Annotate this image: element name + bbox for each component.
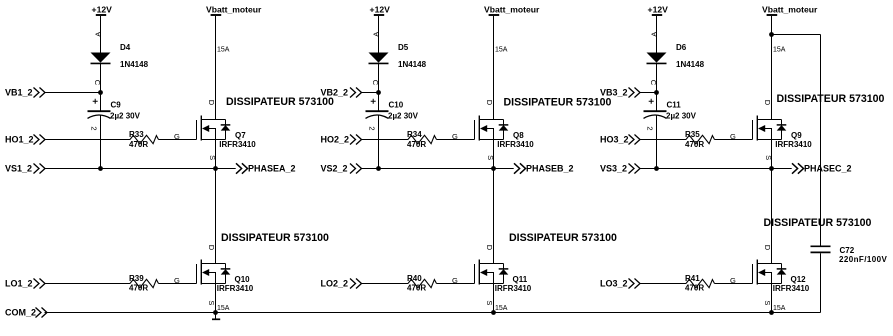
svg-text:R39: R39	[129, 274, 144, 283]
svg-text:R35: R35	[685, 130, 700, 139]
svg-text:15A: 15A	[495, 305, 508, 312]
svg-text:LO1_2: LO1_2	[5, 279, 33, 289]
svg-text:C: C	[93, 80, 102, 86]
svg-text:2µ2 30V: 2µ2 30V	[666, 112, 697, 121]
svg-text:R41: R41	[685, 274, 700, 283]
svg-text:A: A	[371, 32, 380, 37]
svg-text:D5: D5	[398, 43, 409, 52]
svg-text:C9: C9	[111, 100, 122, 109]
svg-text:G: G	[174, 276, 180, 285]
svg-text:PHASEA_2: PHASEA_2	[248, 164, 296, 174]
svg-text:S: S	[485, 300, 494, 305]
svg-text:COM_2: COM_2	[5, 308, 36, 318]
svg-text:Q11: Q11	[513, 275, 528, 284]
svg-text:VS1_2: VS1_2	[5, 164, 32, 174]
svg-text:DISSIPATEUR 573100: DISSIPATEUR 573100	[504, 97, 612, 109]
svg-text:DISSIPATEUR 573100: DISSIPATEUR 573100	[226, 96, 334, 108]
svg-text:D4: D4	[120, 43, 131, 52]
svg-text:DISSIPATEUR 573100: DISSIPATEUR 573100	[764, 217, 872, 229]
svg-text:R40: R40	[407, 274, 422, 283]
svg-text:2µ2 30V: 2µ2 30V	[110, 112, 141, 121]
svg-text:R33: R33	[129, 130, 144, 139]
svg-text:R34: R34	[407, 130, 422, 139]
svg-text:1N4148: 1N4148	[676, 60, 705, 69]
svg-text:G: G	[730, 276, 736, 285]
svg-text:S: S	[764, 155, 773, 160]
svg-text:IRFR3410: IRFR3410	[495, 284, 532, 293]
svg-text:15A: 15A	[495, 46, 508, 53]
svg-text:VS3_2: VS3_2	[600, 164, 627, 174]
svg-text:DISSIPATEUR 573100: DISSIPATEUR 573100	[509, 232, 617, 244]
svg-text:G: G	[452, 276, 458, 285]
svg-text:220nF/100V: 220nF/100V	[839, 255, 887, 264]
svg-text:470R: 470R	[129, 284, 148, 293]
svg-text:S: S	[208, 155, 217, 160]
svg-text:S: S	[207, 300, 216, 305]
svg-text:IRFR3410: IRFR3410	[217, 284, 254, 293]
svg-text:DISSIPATEUR 573100: DISSIPATEUR 573100	[221, 232, 329, 244]
svg-text:A: A	[649, 32, 658, 37]
svg-text:IRFR3410: IRFR3410	[775, 140, 812, 149]
svg-text:HO3_2: HO3_2	[600, 135, 629, 145]
svg-text:470R: 470R	[129, 140, 148, 149]
svg-text:15A: 15A	[773, 46, 786, 53]
svg-text:D: D	[485, 245, 494, 251]
svg-text:D: D	[763, 100, 772, 106]
svg-text:A: A	[93, 32, 102, 37]
svg-text:G: G	[730, 132, 736, 141]
svg-text:HO1_2: HO1_2	[5, 135, 34, 145]
svg-text:D: D	[485, 100, 494, 106]
svg-text:15A: 15A	[217, 46, 230, 53]
svg-text:G: G	[174, 132, 180, 141]
svg-text:D: D	[207, 245, 216, 251]
svg-text:2: 2	[89, 126, 98, 130]
svg-text:IRFR3410: IRFR3410	[497, 140, 534, 149]
svg-text:C10: C10	[389, 100, 404, 109]
svg-text:D: D	[207, 100, 216, 106]
svg-text:470R: 470R	[685, 140, 704, 149]
svg-text:VB1_2: VB1_2	[5, 88, 33, 98]
svg-text:15A: 15A	[773, 305, 786, 312]
svg-text:PHASEC_2: PHASEC_2	[804, 164, 852, 174]
svg-text:IRFR3410: IRFR3410	[773, 284, 810, 293]
svg-text:LO3_2: LO3_2	[600, 279, 628, 289]
svg-text:VS2_2: VS2_2	[321, 164, 348, 174]
svg-text:LO2_2: LO2_2	[321, 279, 349, 289]
svg-text:PHASEB_2: PHASEB_2	[526, 164, 574, 174]
svg-text:S: S	[486, 155, 495, 160]
svg-text:C72: C72	[840, 246, 855, 255]
svg-text:C: C	[649, 80, 658, 86]
svg-text:G: G	[452, 132, 458, 141]
svg-text:IRFR3410: IRFR3410	[219, 140, 256, 149]
svg-text:2: 2	[367, 126, 376, 130]
svg-text:1N4148: 1N4148	[120, 60, 149, 69]
svg-text:15A: 15A	[217, 305, 230, 312]
svg-text:Q10: Q10	[235, 275, 251, 284]
svg-text:470R: 470R	[407, 140, 426, 149]
svg-text:S: S	[763, 300, 772, 305]
svg-text:HO2_2: HO2_2	[321, 135, 350, 145]
svg-text:Q12: Q12	[791, 275, 807, 284]
svg-text:C11: C11	[667, 100, 682, 109]
svg-text:C: C	[371, 80, 380, 86]
svg-text:DISSIPATEUR 573100: DISSIPATEUR 573100	[777, 93, 885, 105]
svg-text:1N4148: 1N4148	[398, 60, 427, 69]
svg-text:2: 2	[645, 126, 654, 130]
svg-text:D: D	[763, 245, 772, 251]
svg-text:D6: D6	[676, 43, 687, 52]
svg-text:470R: 470R	[407, 284, 426, 293]
svg-text:2µ2 30V: 2µ2 30V	[388, 112, 419, 121]
svg-text:470R: 470R	[685, 284, 704, 293]
